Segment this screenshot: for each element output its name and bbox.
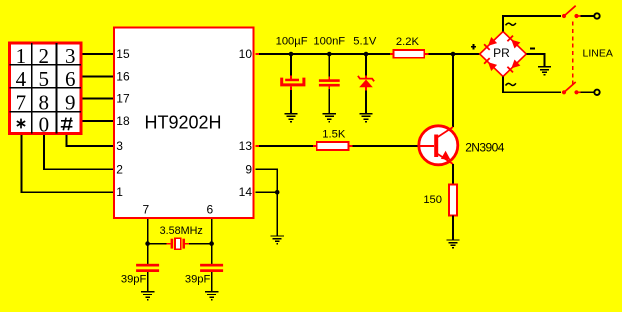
svg-text:3: 3 — [116, 139, 123, 153]
svg-text:1: 1 — [116, 185, 123, 199]
svg-text:150: 150 — [423, 194, 442, 206]
svg-text:16: 16 — [116, 70, 130, 84]
svg-text:15: 15 — [116, 47, 130, 61]
svg-text:2.2K: 2.2K — [396, 36, 420, 48]
svg-text:2: 2 — [116, 162, 123, 176]
svg-text:0: 0 — [39, 112, 50, 136]
svg-text:1: 1 — [16, 44, 27, 68]
svg-text:6: 6 — [207, 202, 214, 216]
svg-text:6: 6 — [65, 67, 76, 91]
svg-text:13: 13 — [239, 139, 253, 153]
svg-text:3.58MHz: 3.58MHz — [160, 225, 203, 237]
svg-text:5.1V: 5.1V — [353, 36, 377, 48]
svg-text:2N3904: 2N3904 — [465, 140, 505, 154]
svg-text:17: 17 — [116, 92, 130, 106]
svg-text:39pF: 39pF — [121, 274, 147, 286]
svg-text:9: 9 — [245, 162, 252, 176]
svg-text:1.5K: 1.5K — [322, 129, 346, 141]
svg-text:8: 8 — [38, 90, 49, 114]
svg-text:100nF: 100nF — [313, 36, 345, 48]
svg-text:2: 2 — [38, 44, 49, 68]
svg-text:7: 7 — [142, 202, 149, 216]
svg-text:HT9202H: HT9202H — [144, 113, 221, 133]
svg-text:9: 9 — [65, 90, 76, 114]
svg-text:5: 5 — [38, 67, 49, 91]
svg-text:7: 7 — [16, 90, 27, 114]
svg-text:10: 10 — [239, 47, 253, 61]
svg-text:PR: PR — [493, 46, 510, 60]
svg-text:18: 18 — [116, 114, 130, 128]
svg-text:LINEA: LINEA — [583, 48, 613, 60]
svg-text:14: 14 — [239, 185, 253, 199]
svg-text:100µF: 100µF — [276, 36, 308, 48]
svg-text:39pF: 39pF — [185, 274, 211, 286]
svg-text:4: 4 — [16, 67, 27, 91]
svg-text:3: 3 — [65, 44, 76, 68]
